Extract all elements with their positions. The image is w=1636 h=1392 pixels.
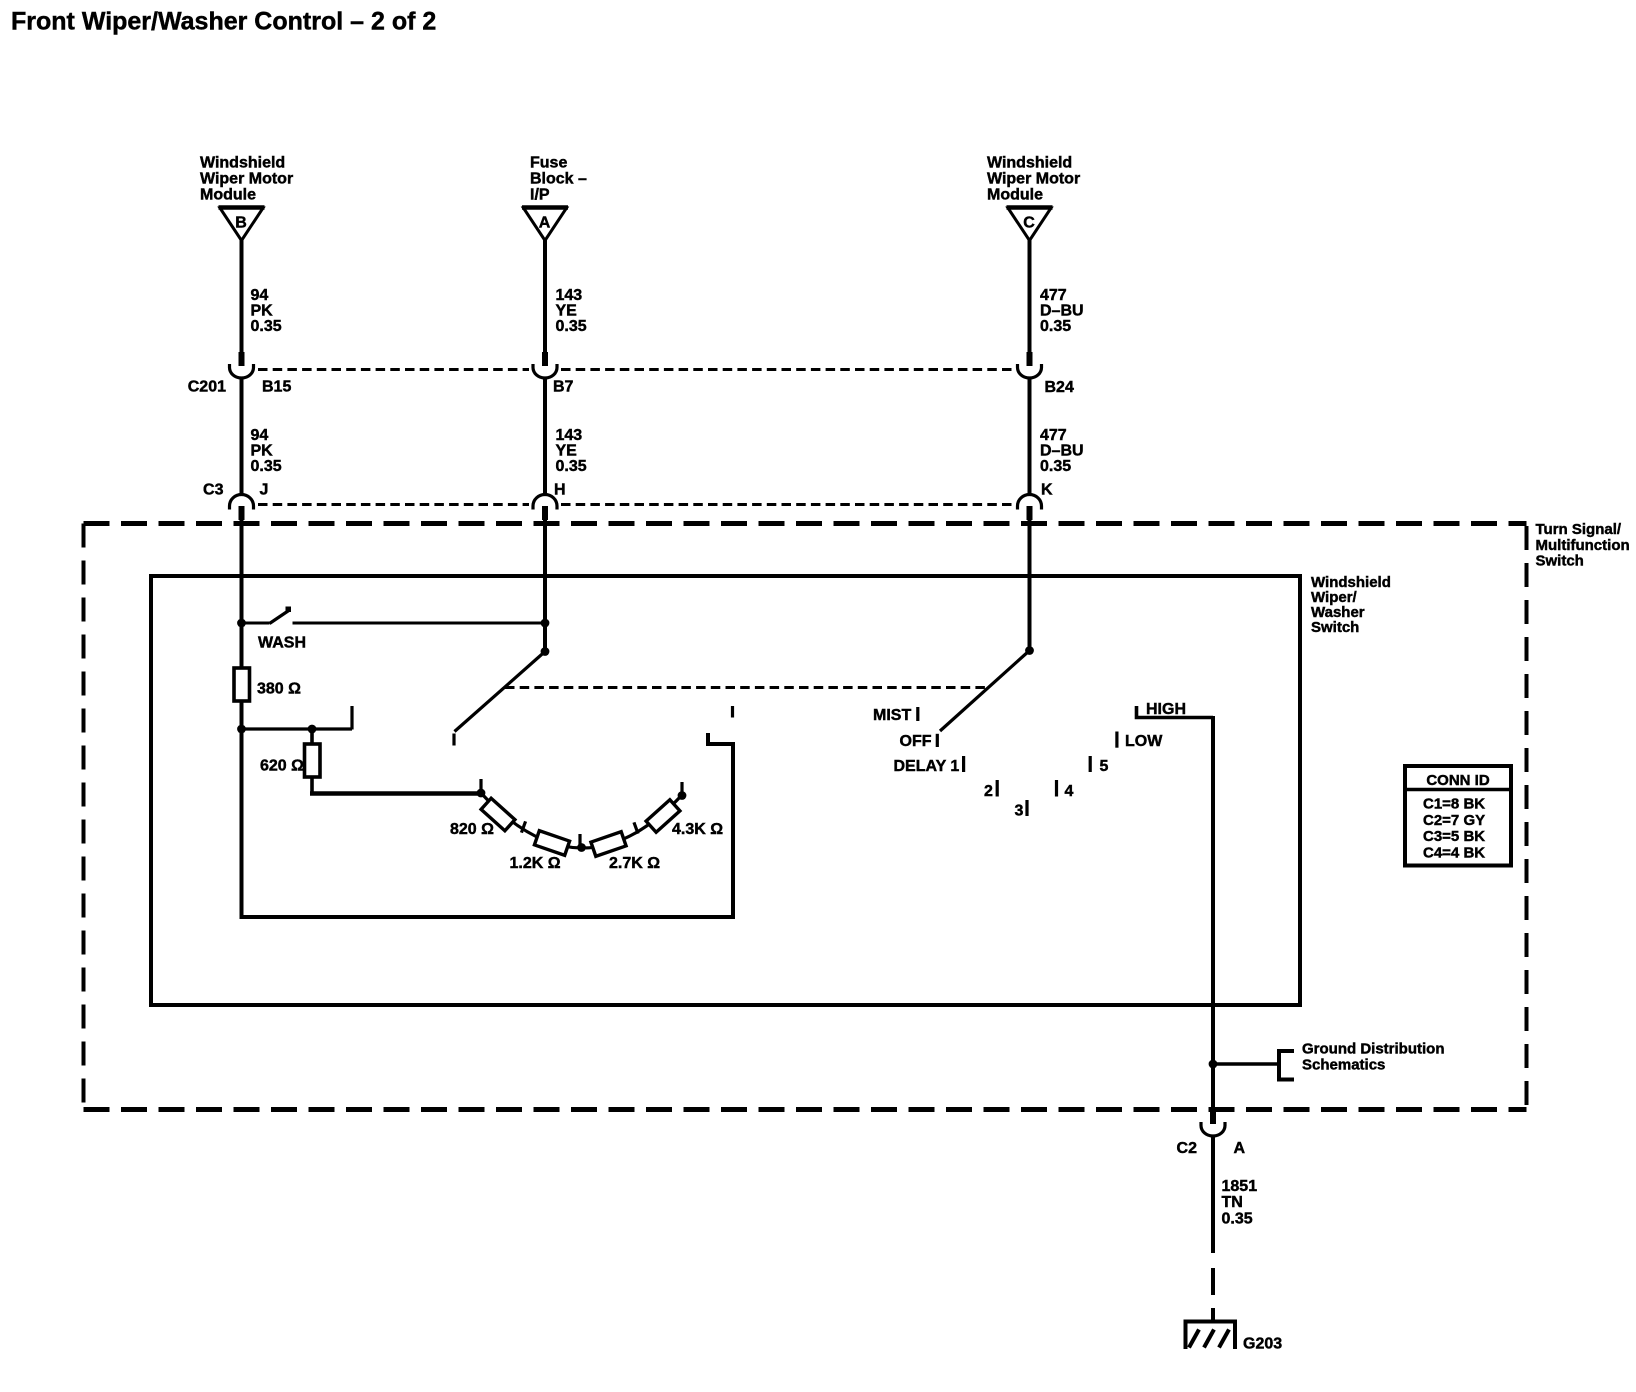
resistor 380 ohm <box>234 668 250 701</box>
svg-text:PK: PK <box>251 303 274 320</box>
right wiper blade <box>940 651 1030 732</box>
connector row C3 dashed body line <box>258 503 529 506</box>
inner box: Windshield Wiper/Washer Switch <box>151 576 1300 1005</box>
wire to ground reference bracket <box>1213 1062 1279 1065</box>
svg-text:0.35: 0.35 <box>251 318 282 335</box>
contact tick 4 <box>1055 780 1058 797</box>
wire C upper <box>1028 240 1032 366</box>
svg-text:Front Wiper/Washer Control – 2: Front Wiper/Washer Control – 2 of 2 <box>11 8 436 36</box>
svg-text:143: 143 <box>556 287 583 304</box>
svg-text:D–BU: D–BU <box>1040 443 1084 460</box>
svg-text:B24: B24 <box>1045 379 1074 396</box>
svg-text:380 Ω: 380 Ω <box>257 681 301 698</box>
svg-text:B7: B7 <box>553 379 574 396</box>
off-page bracket <box>1279 1051 1294 1080</box>
node: junction at 620 <box>308 725 317 734</box>
wire 620 to resistor arc <box>310 791 481 796</box>
node: right wiper pivot <box>1025 646 1034 655</box>
wire wash contact to wire A <box>293 622 546 625</box>
connector cup B24 <box>1018 364 1042 378</box>
svg-text:C1=8 BK: C1=8 BK <box>1423 796 1485 813</box>
dashed wire to ground <box>1211 1268 1215 1322</box>
wire junction to first contact stub <box>242 727 353 730</box>
svg-text:A: A <box>539 215 551 232</box>
wash blade <box>270 610 290 624</box>
contact tick 3 <box>1025 800 1028 816</box>
wire B middle <box>240 378 244 495</box>
resistor 4.3K ohm <box>646 800 680 833</box>
svg-text:LOW: LOW <box>1125 733 1163 750</box>
node: junction below 380 <box>237 725 246 734</box>
pin below K <box>1027 506 1033 520</box>
connector C3 cap at J <box>230 495 254 510</box>
svg-text:HIGH: HIGH <box>1146 701 1186 718</box>
contact tick 3 (left deck) <box>578 834 581 846</box>
node: wash pivot <box>237 619 246 628</box>
svg-text:2.7K Ω: 2.7K Ω <box>609 855 660 872</box>
svg-text:Wiper Motor: Wiper Motor <box>200 171 293 188</box>
wire A middle <box>543 378 547 495</box>
contact tick 4 (left deck) <box>634 822 638 833</box>
pin A into B7 <box>542 352 548 366</box>
mechanical linkage dashed <box>505 686 990 689</box>
svg-text:Multifunction: Multifunction <box>1536 537 1630 554</box>
HIGH contact bracket <box>1137 706 1214 718</box>
wire A upper <box>543 240 547 366</box>
connector triangle A <box>524 208 567 241</box>
svg-text:DELAY 1: DELAY 1 <box>894 758 960 775</box>
connector triangle B <box>220 208 263 241</box>
svg-text:94: 94 <box>251 287 269 304</box>
svg-text:0.35: 0.35 <box>556 458 587 475</box>
svg-text:C3=5 BK: C3=5 BK <box>1423 828 1485 845</box>
svg-text:K: K <box>1041 482 1053 499</box>
outer dashed box: Turn Signal / Multifunction Switch <box>84 521 1527 526</box>
svg-text:CONN ID: CONN ID <box>1426 772 1490 789</box>
resistor arc chain <box>481 793 682 848</box>
svg-text:820 Ω: 820 Ω <box>450 821 494 838</box>
first contact stub (mist side) <box>350 706 353 730</box>
wire low contact to bottom loop <box>242 729 734 917</box>
pin into C2 <box>1210 1110 1216 1124</box>
svg-text:PK: PK <box>251 443 274 460</box>
svg-text:477: 477 <box>1040 427 1067 444</box>
pin below H <box>542 506 548 520</box>
svg-text:MIST: MIST <box>873 707 911 724</box>
left wiper blade <box>455 652 546 732</box>
svg-text:0.35: 0.35 <box>1040 318 1071 335</box>
contact tick low-analog (left deck) <box>731 706 734 718</box>
wire C into switch <box>1028 519 1032 651</box>
svg-text:1.2K Ω: 1.2K Ω <box>510 855 561 872</box>
contact tick MIST <box>916 707 919 721</box>
svg-text:C201: C201 <box>188 379 226 396</box>
svg-text:Block –: Block – <box>530 171 587 188</box>
svg-text:B: B <box>235 215 247 232</box>
contact tick 5 (left deck) <box>680 782 683 794</box>
node: left wiper pivot <box>541 647 550 656</box>
svg-text:1851: 1851 <box>1222 1178 1258 1195</box>
pin B into C201 <box>239 352 245 366</box>
svg-text:Windshield: Windshield <box>200 155 285 172</box>
contact tick LOW <box>1115 732 1118 748</box>
connector C2 cup <box>1201 1122 1225 1136</box>
svg-text:Wiper Motor: Wiper Motor <box>987 171 1080 188</box>
wire below C2 <box>1211 1136 1215 1253</box>
svg-text:Windshield: Windshield <box>987 155 1072 172</box>
svg-text:C: C <box>1023 215 1035 232</box>
pin C into B24 <box>1027 352 1033 366</box>
svg-text:D–BU: D–BU <box>1040 303 1084 320</box>
svg-text:TN: TN <box>1222 1194 1243 1211</box>
svg-text:Fuse: Fuse <box>530 155 567 172</box>
svg-text:G203: G203 <box>1243 1336 1282 1353</box>
svg-text:Turn Signal/: Turn Signal/ <box>1536 521 1622 538</box>
left contact tick (wash off) <box>452 734 455 746</box>
node: arc bottom center <box>577 843 586 852</box>
connector triangle C <box>1008 208 1051 241</box>
connector cap K <box>1018 495 1042 510</box>
svg-text:Module: Module <box>200 187 256 204</box>
svg-text:3: 3 <box>1015 803 1024 820</box>
svg-text:Module: Module <box>987 187 1043 204</box>
connector row C201 dashed body line <box>258 368 529 371</box>
contact tick 2 (left deck) <box>521 821 525 832</box>
wire C middle <box>1028 378 1032 495</box>
svg-text:C2=7 GY: C2=7 GY <box>1423 812 1485 829</box>
resistor 820 ohm <box>481 798 515 831</box>
svg-text:OFF: OFF <box>900 733 932 750</box>
svg-text:2: 2 <box>984 783 993 800</box>
CONN ID table <box>1405 766 1511 866</box>
svg-text:0.35: 0.35 <box>1222 1211 1253 1228</box>
contact tick 5 <box>1089 756 1092 772</box>
wire A to wiper pivot <box>543 623 547 652</box>
svg-text:WASH: WASH <box>258 635 306 652</box>
contact tick delay1 (left deck) <box>479 779 482 791</box>
svg-text:I/P: I/P <box>530 187 550 204</box>
svg-text:Switch: Switch <box>1536 553 1584 570</box>
svg-text:Ground Distribution: Ground Distribution <box>1302 1041 1444 1058</box>
resistor 2.7K ohm <box>591 832 626 857</box>
svg-text:C2: C2 <box>1177 1140 1198 1157</box>
svg-text:0.35: 0.35 <box>1040 458 1071 475</box>
svg-text:A: A <box>1234 1140 1246 1157</box>
contact tick OFF <box>936 734 939 747</box>
svg-text:5: 5 <box>1100 758 1109 775</box>
svg-text:620 Ω: 620 Ω <box>260 758 304 775</box>
node: arc left <box>477 789 486 798</box>
svg-text:YE: YE <box>556 303 578 320</box>
resistor 1.2K ohm <box>534 831 569 856</box>
svg-text:0.35: 0.35 <box>251 458 282 475</box>
svg-text:477: 477 <box>1040 287 1067 304</box>
contact tick DELAY 1 <box>962 756 965 772</box>
svg-text:H: H <box>554 482 566 499</box>
node: arc right <box>678 791 687 800</box>
svg-text:Schematics: Schematics <box>1302 1057 1385 1074</box>
junction on wire A at wash line <box>541 619 550 628</box>
ground symbol G203 <box>1184 1320 1238 1324</box>
pin below J <box>239 506 245 520</box>
svg-text:J: J <box>260 482 269 499</box>
svg-text:4: 4 <box>1065 783 1074 800</box>
svg-text:94: 94 <box>251 427 269 444</box>
connector cap H <box>533 495 557 510</box>
connector C201 cup at B15 <box>230 364 254 378</box>
svg-text:B15: B15 <box>262 379 291 396</box>
contact tick 2 <box>996 780 999 797</box>
wire B upper <box>240 240 244 366</box>
wire B into switch <box>240 519 244 623</box>
node: ground branch junction <box>1209 1060 1218 1069</box>
svg-text:0.35: 0.35 <box>556 318 587 335</box>
wire HIGH down <box>1211 716 1215 1124</box>
svg-text:4.3K Ω: 4.3K Ω <box>672 821 723 838</box>
svg-text:YE: YE <box>556 443 578 460</box>
svg-text:C4=4 BK: C4=4 BK <box>1423 845 1485 862</box>
svg-text:C3: C3 <box>203 482 224 499</box>
connector cup B7 <box>533 364 557 378</box>
svg-text:143: 143 <box>556 427 583 444</box>
svg-text:Switch: Switch <box>1311 619 1359 636</box>
wire A into switch <box>543 519 547 623</box>
resistor 620 ohm <box>310 729 314 744</box>
